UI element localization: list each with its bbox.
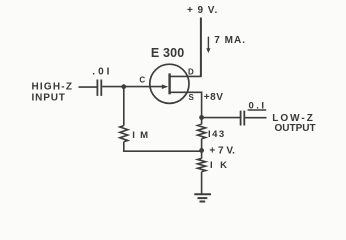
svg-text:+8V: +8V <box>204 92 224 103</box>
svg-text:E 300: E 300 <box>151 46 184 60</box>
svg-text:C: C <box>139 76 145 85</box>
svg-text:+ 7 V.: + 7 V. <box>209 146 235 157</box>
svg-text:+ 9 V.: + 9 V. <box>187 5 218 16</box>
svg-text:INPUT: INPUT <box>32 93 66 104</box>
svg-text:I K: I K <box>210 160 229 171</box>
svg-text:7 MA.: 7 MA. <box>214 35 246 46</box>
svg-text:D: D <box>188 67 194 76</box>
svg-text:HIGH-Z: HIGH-Z <box>32 82 74 93</box>
svg-text:I43: I43 <box>208 129 226 140</box>
svg-text:0.I: 0.I <box>249 100 267 111</box>
svg-text:S: S <box>189 93 195 102</box>
svg-text:OUTPUT: OUTPUT <box>275 123 316 134</box>
svg-text:.0I: .0I <box>92 66 112 77</box>
svg-text:I M: I M <box>132 130 149 141</box>
svg-text:LOW-Z: LOW-Z <box>272 113 315 124</box>
